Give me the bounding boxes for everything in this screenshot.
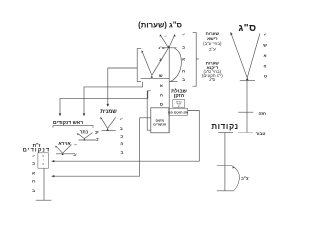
wire A from V-bar to Keter arrow (84, 82, 143, 115)
svg-text:ב: ב (120, 133, 123, 138)
letters column L1 (inside/below V) (159, 57, 163, 107)
letters column C2 (120, 117, 124, 154)
far right V right arm (247, 34, 260, 78)
svg-text:ס"ג (שערות): ס"ג (שערות) (138, 20, 182, 29)
svg-text:הזקן: הזקן (174, 93, 185, 99)
svg-text:ה: ה (264, 64, 267, 69)
box1 small 3-line box (173, 100, 185, 108)
far right bar (240, 80, 255, 82)
tabur tick (218, 132, 233, 134)
arrow up-left from junction (160, 35, 168, 48)
wire O from bracket1 to Shmonit arrow (108, 68, 137, 106)
box2 Ozen Chotem Peh (169, 108, 188, 115)
svg-text:ראש דנקודים: ראש דנקודים (53, 120, 83, 126)
svg-text:ה: ה (182, 68, 185, 73)
bottom tick (36, 199, 52, 201)
svg-text:שמנית: שמנית (100, 109, 117, 115)
chest tick (238, 111, 253, 113)
right bracket ] of letters column (193, 32, 197, 86)
bar under big V (141, 78, 170, 80)
svg-text:ט: ט (264, 74, 267, 79)
arrow up-right from junction (169, 35, 175, 48)
svg-text:י': י' (182, 33, 184, 38)
text block 2: hairs of beard (202, 61, 223, 82)
big V apex arrowhead down (151, 75, 153, 77)
text block 1: hairs of head (203, 31, 222, 52)
left bracket [ of V group (137, 49, 141, 82)
lower right vertical (224, 133, 226, 191)
wire B from bracket2 to Avira arrow (60, 91, 148, 115)
svg-text:ה: ה (32, 179, 35, 184)
svg-text:ב: ב (182, 44, 185, 49)
svg-text:ו: ו (43, 159, 44, 162)
overbrace (53, 126, 93, 128)
svg-text:טבור: טבור (256, 131, 266, 136)
svg-text:ס"ג: ס"ג (209, 77, 215, 82)
letters column bottom-left (32, 154, 35, 193)
svg-text:ב': ב' (96, 136, 100, 141)
svg-text:ם: ם (42, 163, 44, 166)
svg-text:ה: ה (120, 141, 123, 146)
svg-text:נקודות: נקודות (211, 122, 238, 131)
svg-text:י': י' (32, 154, 34, 159)
svg-text:ג': ג' (159, 57, 162, 62)
mid tick (217, 164, 233, 166)
svg-text:ב: ב (120, 126, 123, 131)
svg-text:ס"ג: ס"ג (159, 46, 165, 50)
svg-text:הנקודים: הנקודים (153, 123, 167, 127)
bottom tick (217, 190, 234, 192)
arc Tzimtzum B (233, 166, 240, 190)
big V right arm from junction (152, 48, 169, 75)
svg-text:ה: ה (160, 92, 163, 97)
far right V left arm (231, 32, 248, 78)
svg-text:ב: ב (32, 188, 35, 193)
svg-text:א: א (160, 83, 163, 88)
svg-text:ש: ש (263, 43, 267, 48)
Avira bar (56, 153, 74, 155)
right vertical body line (246, 81, 248, 133)
Avira V (56, 146, 63, 153)
left bracket [ lower group (147, 91, 151, 130)
svg-text:י': י' (97, 130, 99, 135)
svg-text:ס"ג: ס"ג (238, 23, 256, 34)
svg-text:י': י' (74, 143, 76, 148)
junction bar (164, 47, 177, 49)
svg-text:א: א (264, 53, 267, 58)
big V vessel: left arm with arrowhead (142, 51, 152, 76)
Keter bar (79, 139, 96, 141)
svg-text:ב: ב (32, 161, 35, 166)
svg-text:כתר: כתר (80, 130, 89, 135)
svg-text:ב: ב (182, 77, 185, 82)
letters column R1 (182, 33, 185, 83)
svg-text:א: א (182, 57, 185, 62)
svg-text:ב': ב' (73, 152, 77, 157)
Shmonit bar (102, 130, 116, 132)
svg-text:א': א' (178, 106, 180, 108)
far right apex arrowhead (246, 77, 249, 80)
Keter V (77, 133, 84, 138)
svg-text:ש: ש (159, 73, 163, 78)
svg-text:ם: ם (160, 102, 163, 107)
svg-text:י': י' (165, 35, 167, 39)
middle tick of right bracket (196, 58, 199, 60)
junction arrowhead (168, 45, 170, 47)
curve (right bulge) (170, 48, 181, 81)
wire C from Makom box to left arrow (52, 118, 151, 176)
svg-text:י': י' (120, 117, 122, 122)
svg-text:אזן חוטם פה: אזן חוטם פה (168, 111, 189, 115)
svg-text:ע"ב: ע"ב (209, 47, 216, 52)
svg-text:(בחי' ע"ב): (בחי' ע"ב) (203, 41, 222, 46)
wire D from box2 to left arrow (52, 111, 200, 162)
small left box (38, 153, 49, 168)
bar under curve (169, 81, 177, 83)
svg-text:י': י' (264, 33, 266, 38)
svg-text:צ"ב: צ"ב (241, 176, 249, 181)
svg-text:א: א (32, 171, 35, 176)
Shmonit V (101, 117, 108, 128)
svg-text:ם: ם (42, 155, 44, 158)
svg-text:חזה: חזה (259, 111, 267, 116)
far right letters (263, 33, 267, 79)
Makom haNekudim box (151, 108, 169, 133)
svg-text:ב: ב (120, 149, 123, 154)
central vertical line (168, 48, 170, 133)
left vertical line (43, 168, 45, 200)
